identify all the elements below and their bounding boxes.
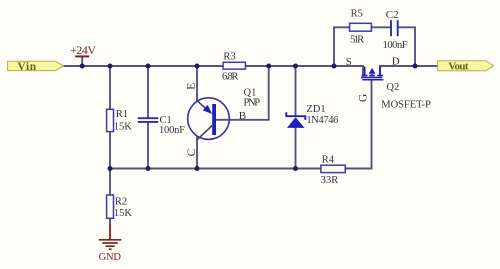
- svg-text:51R: 51R: [350, 34, 364, 45]
- svg-text:R3: R3: [223, 51, 235, 62]
- wire +24V stub: [81, 56, 83, 66]
- wire top rail R3 to MOSFET source bend: [245, 66, 363, 77]
- junction dot Q1 collector bottom: [195, 166, 200, 171]
- MOSFET Q2: [346, 56, 431, 111]
- svg-text:Vin: Vin: [17, 61, 36, 73]
- svg-text:R4: R4: [322, 154, 335, 165]
- junction dot snubber right drain: [413, 64, 418, 69]
- svg-text:+24V: +24V: [70, 43, 96, 57]
- resistor R5: [350, 8, 372, 45]
- wire ZD1 top lead: [295, 66, 297, 116]
- port Vout: [438, 61, 494, 73]
- svg-text:PNP: PNP: [244, 98, 261, 109]
- power port +24V: [70, 43, 96, 57]
- wire Q1 emitter lead: [196, 66, 198, 101]
- wire MOSFET drain to Vout: [380, 66, 438, 77]
- svg-text:G: G: [358, 94, 370, 102]
- svg-text:MOSFET-P: MOSFET-P: [381, 99, 431, 110]
- svg-text:R5: R5: [351, 8, 363, 19]
- svg-text:B: B: [239, 110, 246, 122]
- port Vin: [8, 61, 64, 73]
- wire C2 to drain riser: [398, 27, 415, 66]
- svg-text:15K: 15K: [114, 208, 132, 219]
- zener diode ZD1: [286, 104, 338, 128]
- svg-text:1N4746: 1N4746: [306, 115, 338, 126]
- wire snubber left riser: [334, 27, 350, 66]
- wire C1 top lead: [147, 66, 149, 118]
- wire R4 to MOSFET gate: [345, 80, 371, 169]
- svg-text:E: E: [186, 83, 198, 90]
- svg-text:15K: 15K: [114, 122, 133, 133]
- svg-text:100nF: 100nF: [159, 125, 185, 136]
- junction dot ZD1 top: [293, 64, 298, 69]
- wire R5 to C2: [371, 26, 390, 28]
- wire top rail Vin to R3: [64, 65, 224, 67]
- resistor R1: [107, 109, 133, 133]
- junction dot Q1 emitter: [195, 64, 200, 69]
- svg-text:Vout: Vout: [448, 61, 469, 73]
- junction dot ZD1 bottom: [293, 166, 298, 171]
- ground GND: [99, 225, 122, 264]
- capacitor C2: [383, 9, 408, 51]
- junction dot R1 top: [108, 64, 113, 69]
- junction dot C1 bottom: [146, 166, 151, 171]
- svg-text:R2: R2: [115, 196, 127, 207]
- capacitor C1: [138, 115, 185, 136]
- svg-text:C: C: [186, 148, 198, 156]
- junction dot snubber left: [332, 64, 337, 69]
- svg-text:ZD1: ZD1: [306, 104, 325, 115]
- junction dot +24V node: [80, 64, 85, 69]
- wire Q1 base to top rail: [216, 66, 269, 120]
- svg-text:R1: R1: [116, 109, 128, 120]
- junction dot bottom rail R1-R2: [108, 166, 113, 171]
- junction dot Q1 base riser: [266, 64, 271, 69]
- wire Q1 collector lead: [196, 136, 198, 168]
- resistor R4: [321, 154, 346, 186]
- wire bottom rail left of R4: [110, 168, 321, 170]
- svg-text:GND: GND: [99, 252, 122, 263]
- resistor R3: [222, 51, 245, 82]
- wire R1 bottom to bottom rail: [109, 132, 111, 196]
- junction dot C1 top: [146, 64, 151, 69]
- svg-text:C2: C2: [386, 9, 399, 21]
- svg-text:33R: 33R: [321, 175, 339, 186]
- wire R2 bottom to ground: [109, 218, 111, 226]
- svg-text:100nF: 100nF: [383, 40, 408, 51]
- wire R1 top lead: [109, 66, 111, 110]
- wire C1 bottom lead: [147, 122, 149, 169]
- svg-text:Q2: Q2: [386, 82, 399, 93]
- svg-text:D: D: [392, 56, 400, 68]
- resistor R2: [107, 195, 133, 219]
- svg-text:S: S: [346, 56, 352, 68]
- wire ZD1 bottom lead: [295, 128, 297, 169]
- svg-text:6.8R: 6.8R: [222, 72, 239, 83]
- transistor Q1: [186, 83, 261, 157]
